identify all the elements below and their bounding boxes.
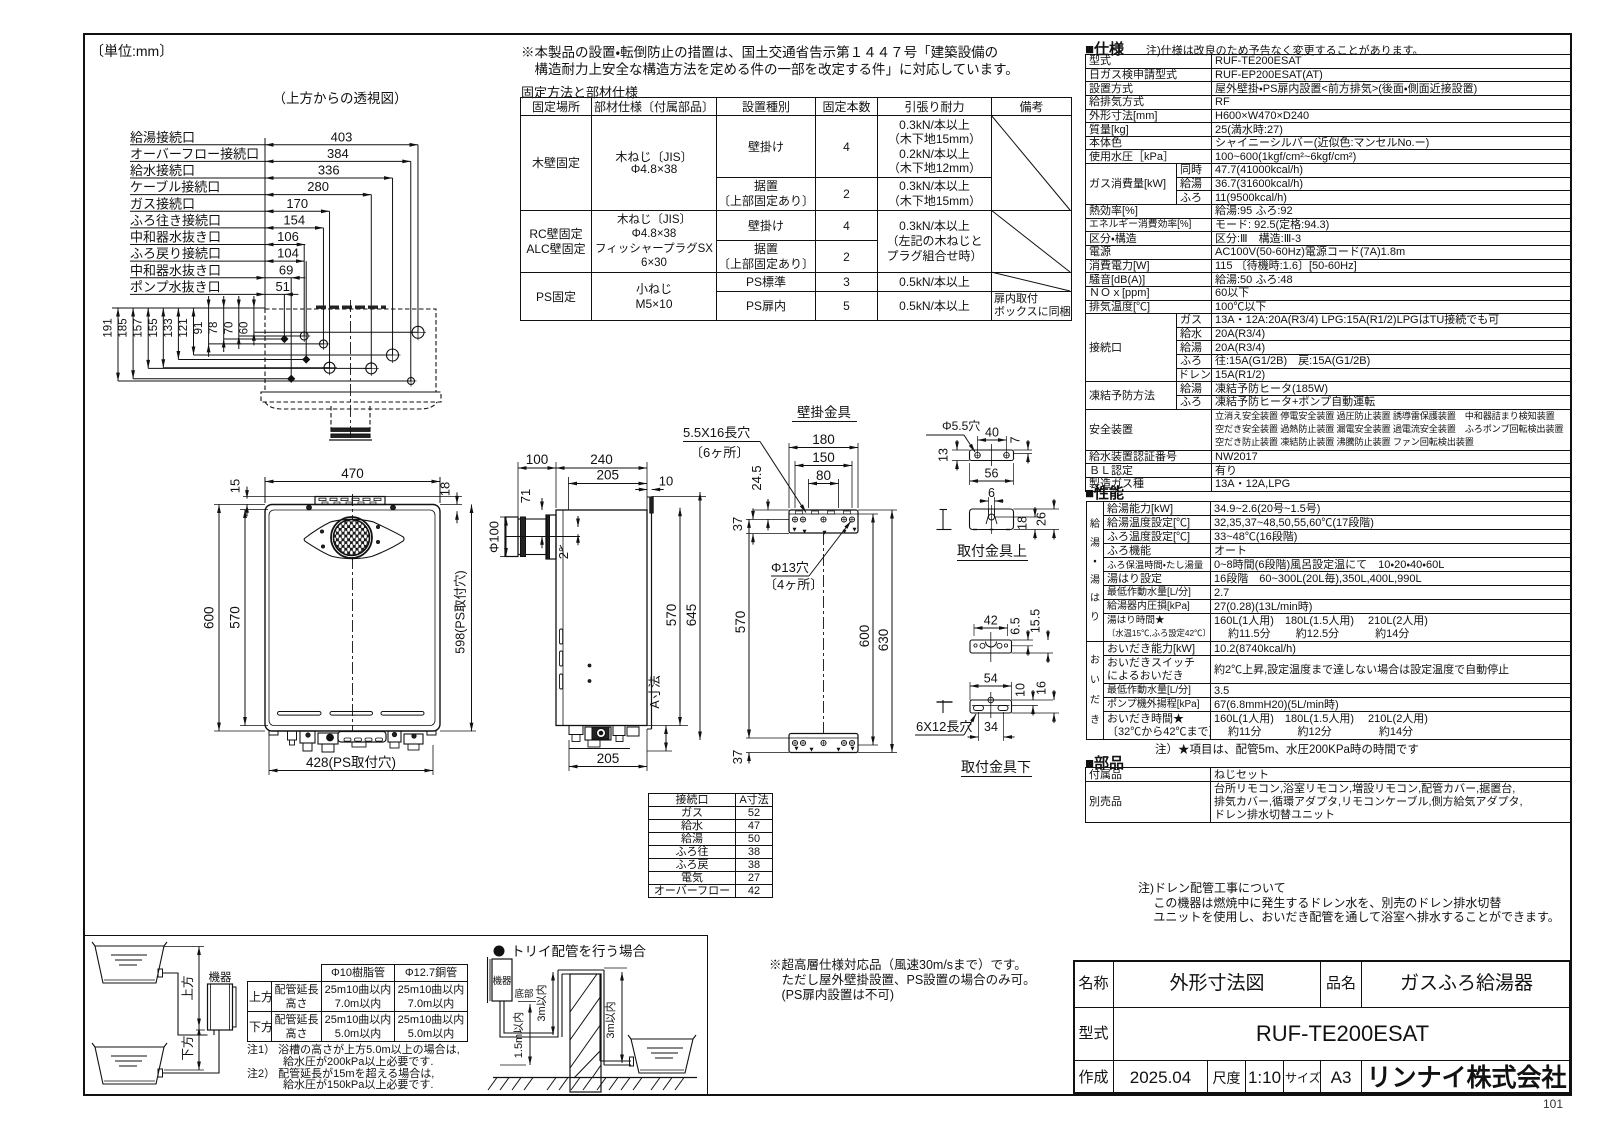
svg-text:470: 470 [341,466,364,481]
svg-text:10: 10 [1014,683,1028,697]
svg-text:71: 71 [518,489,533,503]
svg-text:24.5: 24.5 [749,465,764,490]
svg-text:上方: 上方 [180,975,195,1000]
svg-text:ガス接続口: ガス接続口 [130,196,195,211]
svg-text:18: 18 [1016,516,1030,530]
svg-text:336: 336 [318,163,340,178]
svg-text:26: 26 [1035,512,1049,526]
svg-text:598(PS取付穴): 598(PS取付穴) [454,570,468,653]
svg-text:645: 645 [684,604,699,627]
svg-text:15.5: 15.5 [1029,609,1043,633]
svg-text:6.5: 6.5 [1009,617,1023,634]
svg-text:下方: 下方 [180,1035,195,1060]
svg-text:170: 170 [286,196,308,211]
svg-text:40: 40 [985,426,999,440]
svg-text:Φ100: Φ100 [487,521,502,553]
svg-text:（上方からの透視図）: （上方からの透視図） [273,91,408,106]
svg-text:ケーブル接続口: ケーブル接続口 [130,180,220,195]
svg-text:240: 240 [590,452,613,467]
svg-text:6X12長穴: 6X12長穴 [916,719,972,734]
svg-text:91: 91 [193,322,205,335]
svg-text:69: 69 [279,262,293,277]
svg-text:185: 185 [118,318,130,337]
svg-text:428(PS取付穴): 428(PS取付穴) [306,755,396,770]
svg-text:〔6ヶ所〕: 〔6ヶ所〕 [690,445,749,460]
svg-text:給水接続口: 給水接続口 [130,163,195,178]
svg-text:18: 18 [438,482,453,496]
svg-text:7: 7 [1009,436,1023,443]
svg-text:壁掛金具: 壁掛金具 [797,405,851,420]
svg-text:78: 78 [208,322,220,335]
svg-text:〔4ヶ所〕: 〔4ヶ所〕 [764,577,823,592]
svg-text:給湯接続口: 給湯接続口 [130,130,195,145]
svg-text:取付金具下: 取付金具下 [961,759,1031,775]
svg-text:570: 570 [664,604,679,627]
svg-text:106: 106 [277,229,299,244]
svg-text:280: 280 [307,179,329,194]
svg-text:ふろ往き接続口: ふろ往き接続口 [130,213,221,228]
svg-text:205: 205 [596,468,619,483]
svg-text:3m以内: 3m以内 [534,984,548,1021]
svg-text:121: 121 [178,318,190,337]
svg-text:6: 6 [988,486,995,500]
svg-text:51: 51 [275,279,289,294]
svg-text:34: 34 [984,720,998,734]
svg-text:104: 104 [277,246,299,261]
svg-text:A寸法: A寸法 [648,675,662,709]
svg-text:205: 205 [597,751,620,766]
svg-text:80: 80 [816,468,831,483]
svg-text:54: 54 [984,672,998,686]
svg-text:157: 157 [133,318,145,337]
svg-text:154: 154 [283,212,305,227]
svg-text:5.5X16長穴: 5.5X16長穴 [683,425,750,440]
svg-text:1.5m以内: 1.5m以内 [511,1012,525,1058]
svg-text:15: 15 [228,479,243,493]
svg-text:384: 384 [327,146,349,161]
svg-text:150: 150 [812,450,835,465]
svg-text:37: 37 [730,517,745,531]
svg-text:56: 56 [985,467,999,481]
svg-text:100: 100 [526,452,549,467]
svg-text:600: 600 [202,606,217,629]
svg-text:133: 133 [163,318,175,337]
svg-text:取付金具上: 取付金具上 [957,543,1027,559]
svg-text:機器: 機器 [209,971,232,984]
svg-text:13: 13 [937,448,951,462]
svg-text:3m以内: 3m以内 [603,1001,617,1038]
svg-text:底部: 底部 [514,989,534,1000]
svg-text:中和器水抜き口: 中和器水抜き口 [130,263,221,278]
svg-text:70: 70 [223,322,235,335]
svg-text:570: 570 [228,606,243,629]
svg-text:Φ5.5穴: Φ5.5穴 [942,419,980,433]
svg-text:570: 570 [733,611,748,634]
svg-text:37: 37 [730,750,745,764]
svg-text:191: 191 [103,318,115,337]
svg-text:630: 630 [876,629,891,652]
svg-text:155: 155 [148,318,160,337]
svg-text:中和器水抜き口: 中和器水抜き口 [130,230,221,245]
svg-text:ふろ戻り接続口: ふろ戻り接続口 [130,246,221,261]
svg-text:600: 600 [857,625,872,648]
svg-text:42: 42 [984,614,998,628]
svg-text:トリイ配管を行う場合: トリイ配管を行う場合 [511,944,646,959]
svg-text:60: 60 [238,322,250,335]
svg-text:機器: 機器 [492,975,512,987]
svg-text:10: 10 [659,474,673,489]
svg-text:Φ13穴: Φ13穴 [771,560,809,575]
svg-text:オーバーフロー接続口: オーバーフロー接続口 [130,146,259,161]
svg-text:ポンプ水抜き口: ポンプ水抜き口 [130,279,221,294]
svg-text:403: 403 [331,129,353,144]
svg-text:180: 180 [812,432,835,447]
svg-text:16: 16 [1035,681,1049,695]
